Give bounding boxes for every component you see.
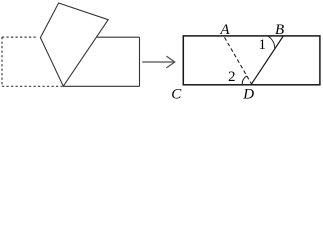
paper strip: top edge (right of fold) <box>96 36 139 38</box>
rectangle ABCD (right figure) <box>183 36 320 85</box>
svg-text:B: B <box>275 22 284 38</box>
arrow between figures <box>142 56 175 68</box>
svg-text:D: D <box>242 87 254 101</box>
dashed crease AD <box>225 37 252 84</box>
svg-text:2: 2 <box>228 69 236 85</box>
fold line DB <box>252 36 284 84</box>
paper strip: bottom edge <box>63 85 139 87</box>
dotted square: top edge <box>2 36 38 38</box>
angle 2 arc at D <box>242 76 247 84</box>
angle 1 arc at B <box>268 36 275 49</box>
svg-text:1: 1 <box>258 37 266 53</box>
svg-text:A: A <box>219 22 230 38</box>
svg-text:C: C <box>171 86 182 101</box>
folded flap quadrilateral <box>40 3 108 86</box>
dotted square: original position of folded flap (left edge) <box>1 37 3 86</box>
paper strip: right edge <box>139 37 141 86</box>
dotted square: bottom edge <box>2 85 63 87</box>
